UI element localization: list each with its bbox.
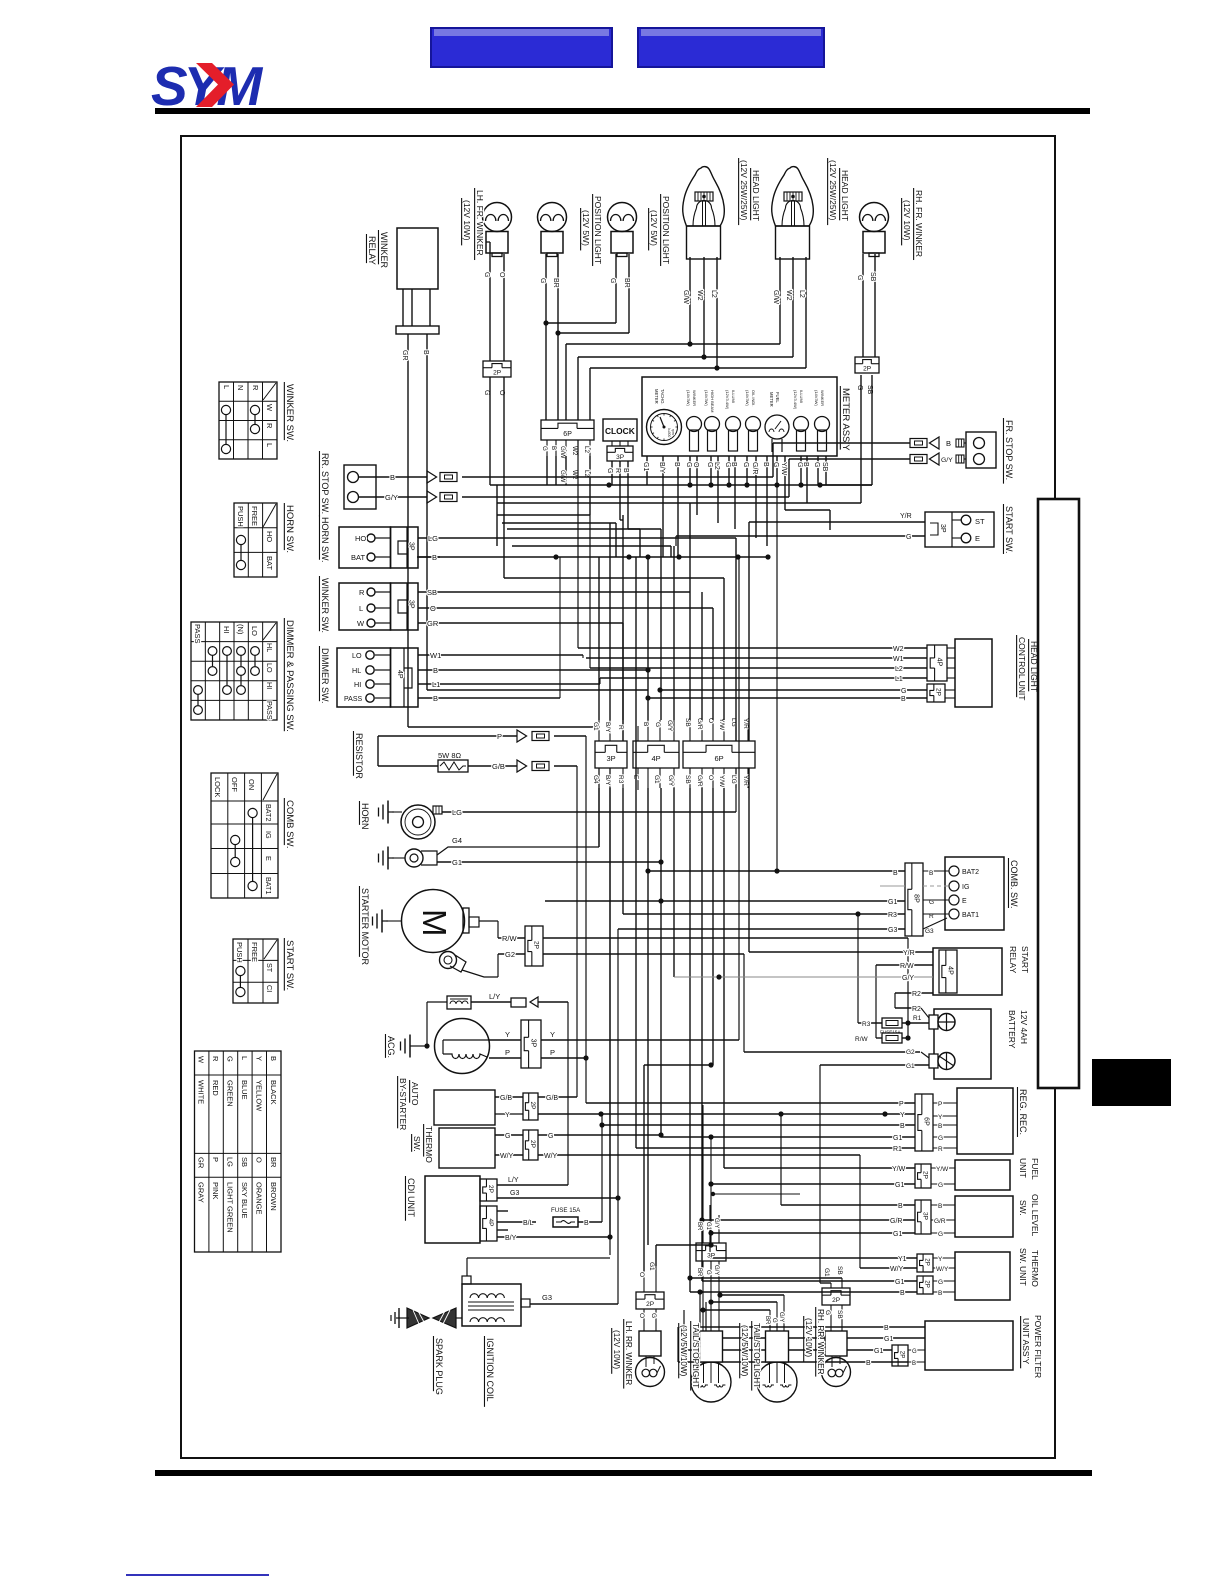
- svg-text:B: B: [938, 1123, 942, 1130]
- wires W2 W1 L2 L1 G B headlight control: [578, 440, 927, 741]
- headlight control unit label: [1017, 635, 1039, 700]
- svg-text:G: G: [912, 1349, 917, 1355]
- wire G/B bystarter: [495, 766, 577, 1102]
- svg-text:G: G: [742, 462, 749, 467]
- fuse R1 battery: [858, 1015, 929, 1038]
- rear stop switch: [344, 465, 376, 509]
- position light 2 lamp: [608, 203, 637, 257]
- ground terminal lug: [379, 847, 438, 870]
- svg-text:Y: Y: [938, 1114, 943, 1121]
- head light 1 lamp: [683, 167, 725, 259]
- svg-text:RH. FR. WINKER: RH. FR. WINKER: [914, 190, 924, 257]
- svg-text:HI: HI: [265, 682, 274, 689]
- svg-text:SB: SB: [836, 1266, 843, 1275]
- svg-text:G/Y: G/Y: [713, 1265, 719, 1275]
- wire LG horn: [442, 768, 736, 817]
- svg-text:G: G: [541, 446, 548, 451]
- wire B horn switch: [418, 553, 440, 562]
- RH front winker lamp: [860, 203, 889, 257]
- svg-text:LG: LG: [428, 534, 438, 543]
- black marker box: [1092, 1059, 1171, 1106]
- svg-text:OIL INDI.: OIL INDI.: [751, 390, 756, 407]
- svg-text:RH. RR. WINKER: RH. RR. WINKER: [816, 1309, 825, 1375]
- meter assy box: [642, 377, 837, 456]
- svg-text:R: R: [617, 725, 624, 730]
- svg-text:G1: G1: [895, 1279, 904, 1286]
- svg-text:POSITION LIGHT: POSITION LIGHT: [661, 196, 671, 264]
- connector 2P CDI: [480, 1179, 497, 1201]
- svg-text:rpm: rpm: [671, 429, 675, 435]
- winker switch table label: [284, 382, 295, 442]
- svg-text:B: B: [673, 462, 680, 467]
- tail stop light 2 label: [740, 1321, 761, 1391]
- svg-text:GRAY: GRAY: [197, 1182, 206, 1203]
- svg-text:G/B: G/B: [546, 1095, 558, 1102]
- svg-text:G3: G3: [925, 928, 934, 935]
- svg-text:12V 4AH: 12V 4AH: [1019, 1010, 1029, 1044]
- svg-text:CI: CI: [265, 985, 274, 992]
- svg-text:PUSH: PUSH: [236, 506, 245, 527]
- svg-text:2P: 2P: [863, 366, 871, 373]
- svg-text:PASS: PASS: [193, 624, 202, 643]
- svg-text:B: B: [901, 696, 906, 703]
- head light 2 lamp: [772, 167, 814, 259]
- svg-text:Y/W: Y/W: [718, 775, 725, 788]
- winker switch table: [219, 382, 277, 459]
- wire L/Y CDI: [497, 1177, 568, 1185]
- svg-text:Y1: Y1: [898, 1256, 907, 1263]
- svg-text:3P: 3P: [408, 600, 415, 609]
- svg-text:SB: SB: [869, 272, 876, 282]
- svg-text:O: O: [707, 775, 714, 780]
- svg-text:O: O: [430, 604, 436, 613]
- wire BR position light 2: [558, 254, 630, 333]
- svg-text:LH. FR. WINKER: LH. FR. WINKER: [475, 190, 485, 256]
- svg-text:2P: 2P: [529, 1140, 536, 1148]
- svg-text:(12V 10W): (12V 10W): [804, 1318, 813, 1357]
- svg-text:W/Y: W/Y: [936, 1266, 949, 1273]
- svg-text:L: L: [359, 604, 363, 613]
- svg-text:(12V 10W): (12V 10W): [462, 200, 472, 241]
- svg-text:G/W: G/W: [772, 290, 779, 304]
- wire GR from winker relay: [401, 334, 597, 727]
- svg-text:B: B: [938, 1203, 942, 1210]
- reg rec label: [1017, 1087, 1028, 1137]
- svg-text:5W 8Ω: 5W 8Ω: [438, 751, 462, 760]
- wire Y/R start switch: [749, 513, 925, 741]
- start relay label: [1008, 946, 1030, 974]
- wire W/Y thermo unit: [860, 1266, 917, 1273]
- svg-text:3P: 3P: [939, 524, 946, 533]
- rear stop switch label: [319, 451, 330, 517]
- svg-text:R: R: [938, 1146, 943, 1153]
- ACG generator: [401, 996, 490, 1074]
- svg-text:METER: METER: [769, 392, 774, 407]
- svg-text:G1: G1: [592, 722, 599, 731]
- svg-text:W: W: [265, 404, 274, 412]
- svg-text:IG: IG: [962, 884, 969, 891]
- svg-text:G2: G2: [906, 1049, 915, 1056]
- wire G3 CDI: [497, 929, 621, 1304]
- svg-text:L2: L2: [713, 462, 720, 470]
- svg-text:B: B: [762, 462, 769, 467]
- wire G1 comb switch: [545, 898, 905, 906]
- svg-text:YELLOW: YELLOW: [255, 1080, 264, 1112]
- svg-text:G3: G3: [888, 927, 897, 934]
- connector 2P thermo switch: [523, 1130, 538, 1160]
- svg-text:IG: IG: [264, 831, 273, 839]
- horn switch label: [319, 515, 330, 563]
- svg-text:POWER FILTER: POWER FILTER: [1033, 1315, 1043, 1378]
- auto bystarter label: [398, 1076, 420, 1130]
- svg-text:W2: W2: [571, 470, 578, 480]
- svg-text:BR: BR: [552, 278, 559, 288]
- footer link line: [126, 1574, 269, 1576]
- thermo switch: [439, 1128, 495, 1168]
- svg-text:TAIL/STOPLIGHT: TAIL/STOPLIGHT: [691, 1323, 700, 1388]
- svg-text:W2: W2: [571, 446, 578, 456]
- horn switch connector: [339, 527, 418, 568]
- svg-text:O: O: [255, 1157, 264, 1163]
- svg-text:PINK: PINK: [211, 1182, 220, 1200]
- svg-text:ON: ON: [247, 779, 256, 790]
- svg-text:G/Y: G/Y: [666, 720, 673, 732]
- wire color legend table: [195, 1051, 282, 1252]
- svg-text:G2: G2: [505, 950, 515, 959]
- svg-text:BR: BR: [696, 1268, 702, 1277]
- vertical harness wires above connectors: [599, 503, 749, 741]
- svg-text:B/Y: B/Y: [658, 462, 665, 474]
- svg-text:G: G: [856, 275, 863, 280]
- svg-text:UNIT ASS’Y: UNIT ASS’Y: [1021, 1318, 1031, 1364]
- battery label: [1007, 1010, 1029, 1049]
- wire B comb switch: [645, 485, 905, 877]
- wire R1 reg rec: [636, 1146, 915, 1153]
- horn label: [359, 801, 370, 830]
- svg-text:METER ASS'Y: METER ASS'Y: [840, 388, 851, 451]
- svg-text:B: B: [946, 439, 951, 448]
- svg-text:2P: 2P: [532, 941, 539, 949]
- svg-text:B: B: [898, 1203, 903, 1210]
- svg-text:FREE: FREE: [250, 942, 259, 962]
- wire P ACG: [489, 736, 589, 1103]
- svg-text:4P: 4P: [487, 1219, 494, 1227]
- svg-text:(12V 5W): (12V 5W): [649, 210, 659, 246]
- svg-text:LO: LO: [250, 626, 259, 636]
- top rule: [155, 108, 1090, 114]
- svg-text:OFF: OFF: [230, 777, 239, 792]
- svg-text:HL: HL: [352, 666, 361, 675]
- svg-text:G: G: [771, 1318, 777, 1323]
- svg-text:G: G: [705, 1270, 711, 1275]
- svg-text:TAIL/STOPLIGHT: TAIL/STOPLIGHT: [752, 1323, 761, 1388]
- LH front winker lamp: [483, 203, 512, 257]
- svg-text:BAT: BAT: [351, 553, 365, 562]
- svg-text:E: E: [975, 534, 980, 543]
- svg-text:G: G: [226, 1056, 235, 1062]
- svg-text:(12V3.4W): (12V3.4W): [793, 390, 798, 410]
- connector 2P bystarter: [523, 1093, 538, 1120]
- comb switch unit: [905, 857, 1004, 936]
- wire LG horn switch: [418, 534, 736, 543]
- svg-text:THERMO: THERMO: [424, 1126, 434, 1163]
- wire B power filter 2P: [678, 1327, 908, 1367]
- svg-text:(12V3.4W): (12V3.4W): [725, 390, 730, 410]
- svg-text:G: G: [938, 1182, 943, 1189]
- svg-text:REG. REC.: REG. REC.: [1018, 1089, 1028, 1135]
- wire Y1 thermo unit: [710, 1205, 917, 1263]
- wires below 6P: [547, 456, 590, 515]
- tacho meter: [647, 389, 682, 445]
- svg-text:W/Y: W/Y: [544, 1153, 558, 1160]
- svg-text:SKY BLUE: SKY BLUE: [240, 1182, 249, 1219]
- svg-text:Y/R: Y/R: [742, 775, 749, 786]
- LH front winker label: [462, 188, 485, 260]
- wire G1 oil level: [708, 1230, 915, 1238]
- svg-text:P: P: [505, 1048, 510, 1057]
- svg-text:Y/R: Y/R: [903, 950, 915, 957]
- nav button 1: [430, 27, 613, 68]
- svg-text:LOCK: LOCK: [213, 777, 222, 797]
- svg-text:G/R: G/R: [751, 462, 758, 474]
- svg-text:BR: BR: [764, 1316, 770, 1325]
- svg-text:R: R: [265, 423, 274, 429]
- wire B rear stop: [359, 443, 774, 483]
- svg-text:BAT2: BAT2: [264, 804, 273, 821]
- svg-text:B: B: [866, 1360, 871, 1367]
- svg-text:BATTERY: BATTERY: [1007, 1010, 1017, 1049]
- svg-text:START SW.: START SW.: [1004, 506, 1014, 554]
- svg-text:TACHO.: TACHO.: [660, 389, 665, 405]
- svg-text:G1: G1: [893, 1135, 902, 1142]
- svg-text:RESISTOR: RESISTOR: [354, 733, 364, 779]
- svg-text:B/Y: B/Y: [604, 775, 611, 786]
- svg-text:HI: HI: [354, 680, 361, 689]
- connector 3P ACG: [521, 1020, 541, 1068]
- svg-text:R3: R3: [617, 775, 624, 784]
- svg-text:UNIT: UNIT: [1018, 1158, 1028, 1178]
- wire G3 ignition coil: [530, 1293, 618, 1304]
- svg-text:W1: W1: [893, 656, 904, 663]
- comb switch unit label: [1008, 858, 1019, 909]
- wire G1 reg rec: [661, 1134, 915, 1142]
- svg-text:B: B: [938, 1290, 942, 1297]
- svg-text:4P: 4P: [652, 754, 661, 763]
- head light 2 label: [828, 158, 850, 225]
- svg-text:HORN SW.: HORN SW.: [320, 517, 330, 563]
- svg-text:BLUE: BLUE: [240, 1080, 249, 1100]
- wire B reg rec: [599, 1122, 915, 1130]
- svg-text:SW.: SW.: [1018, 1200, 1028, 1216]
- headlight control unit: [927, 639, 992, 707]
- svg-text:G: G: [609, 278, 616, 283]
- svg-text:AUTO: AUTO: [410, 1082, 420, 1106]
- wire L1 dimmer: [418, 678, 600, 689]
- svg-text:FR. STOP SW.: FR. STOP SW.: [1004, 420, 1014, 480]
- wire O LH rear winker: [644, 1062, 714, 1271]
- svg-text:G/W: G/W: [559, 470, 566, 483]
- svg-text:Y/R: Y/R: [742, 718, 749, 729]
- svg-text:BROWN: BROWN: [269, 1182, 278, 1211]
- svg-text:Y/W: Y/W: [780, 462, 787, 476]
- svg-text:ORANGE: ORANGE: [255, 1182, 264, 1215]
- svg-text:G: G: [856, 385, 863, 390]
- svg-text:G/W: G/W: [559, 446, 566, 459]
- winker relay: [396, 228, 439, 334]
- white overlay box: [1038, 499, 1079, 1088]
- svg-text:WINKER: WINKER: [692, 390, 697, 406]
- svg-text:L2: L2: [710, 290, 717, 298]
- CDI unit label: [405, 1176, 416, 1221]
- svg-text:Y: Y: [255, 1056, 264, 1061]
- svg-text:N: N: [236, 385, 245, 390]
- svg-text:G3: G3: [542, 1293, 552, 1302]
- wire R2 start relay: [895, 991, 933, 1018]
- svg-text:START SW.: START SW.: [284, 940, 295, 990]
- svg-text:4P: 4P: [935, 658, 942, 667]
- svg-text:G1: G1: [648, 1262, 655, 1271]
- wire Y/W fuel unit: [724, 1166, 915, 1173]
- bus wire y557: [417, 554, 771, 559]
- svg-text:G1: G1: [874, 1348, 883, 1355]
- CDI pin stubs: [497, 1211, 508, 1230]
- starter motor label: [359, 886, 370, 966]
- svg-text:L1: L1: [895, 676, 903, 683]
- wire G LH winker: [483, 242, 490, 485]
- svg-text:3P: 3P: [607, 754, 616, 763]
- wires G/W W2 L2 head light 2: [772, 257, 806, 368]
- svg-text:R/W: R/W: [900, 963, 914, 970]
- power filter unit: [892, 1321, 1013, 1370]
- svg-text:Y: Y: [550, 1030, 555, 1039]
- svg-text:2P: 2P: [921, 1171, 928, 1179]
- svg-text:G: G: [483, 272, 490, 277]
- svg-text:G1: G1: [653, 775, 660, 784]
- svg-text:STARTER MOTOR: STARTER MOTOR: [360, 888, 370, 966]
- svg-text:B/Y: B/Y: [505, 1235, 517, 1242]
- svg-text:G/R: G/R: [696, 775, 703, 787]
- wire B front stop: [773, 437, 966, 449]
- svg-text:G/Y: G/Y: [667, 775, 674, 787]
- spark plug: [391, 1308, 462, 1328]
- svg-text:(12V5W/10W): (12V5W/10W): [740, 1325, 749, 1377]
- connector 4P harness: [632, 720, 679, 790]
- svg-text:LIGHT GREEN: LIGHT GREEN: [226, 1182, 235, 1233]
- svg-text:HEAD LIGHT: HEAD LIGHT: [840, 170, 850, 221]
- svg-text:HORN SW.: HORN SW.: [284, 505, 295, 553]
- svg-text:P: P: [938, 1101, 942, 1108]
- svg-text:G: G: [650, 1313, 657, 1318]
- svg-text:(14V3W): (14V3W): [814, 390, 819, 406]
- svg-text:P: P: [899, 1101, 904, 1108]
- svg-text:(12V 25W/25W): (12V 25W/25W): [739, 160, 749, 221]
- svg-text:(14V3W): (14V3W): [745, 390, 750, 406]
- svg-text:R: R: [211, 1056, 220, 1062]
- svg-text:B: B: [550, 446, 557, 450]
- RH front winker label: [902, 188, 924, 260]
- wire G1 ground lug: [437, 858, 664, 867]
- svg-text:G: G: [906, 534, 911, 541]
- svg-text:P: P: [497, 732, 502, 741]
- svg-text:G: G: [796, 462, 803, 467]
- winker switch connector: [339, 583, 418, 630]
- svg-text:W2: W2: [785, 290, 792, 301]
- svg-text:RED: RED: [211, 1080, 220, 1096]
- svg-text:ST: ST: [975, 517, 985, 526]
- svg-text:(12V 10W): (12V 10W): [612, 1330, 621, 1369]
- dimmer switch connector: [337, 648, 418, 707]
- thermo switch label: [412, 1124, 434, 1163]
- svg-text:G/Y: G/Y: [941, 457, 953, 464]
- wire B oil level: [778, 1111, 915, 1210]
- svg-text:FUSE 15A: FUSE 15A: [551, 1207, 581, 1214]
- resistor label: [353, 731, 364, 779]
- wire G2 battery: [744, 1049, 929, 1058]
- wire B power filter: [697, 1289, 925, 1332]
- wire R/W starter: [498, 934, 908, 1023]
- wire IG comb switch: [880, 885, 905, 887]
- nav button 2: [637, 27, 825, 68]
- svg-text:L: L: [265, 443, 274, 447]
- wire Y ACG: [489, 557, 739, 1040]
- power filter label: [1021, 1315, 1043, 1378]
- svg-text:3P: 3P: [529, 1039, 536, 1048]
- svg-text:START: START: [1020, 946, 1030, 973]
- svg-text:W/Y: W/Y: [890, 1266, 904, 1273]
- head light bus wires: [543, 320, 806, 420]
- svg-text:2P: 2P: [923, 1280, 930, 1288]
- wire G RH winker: [689, 254, 863, 503]
- tail stop light 1 lamp: [691, 1105, 731, 1402]
- svg-text:R: R: [251, 385, 260, 391]
- comb switch table label: [284, 798, 295, 849]
- position light 1 label: [581, 194, 603, 266]
- svg-text:LH. RR. WINKER: LH. RR. WINKER: [624, 1321, 633, 1385]
- svg-text:G/Y: G/Y: [385, 493, 398, 502]
- svg-text:G1: G1: [906, 1063, 915, 1070]
- svg-text:R1: R1: [893, 1146, 902, 1153]
- svg-text:G: G: [724, 462, 731, 467]
- svg-text:G4: G4: [592, 775, 599, 784]
- tail light 2 feed wires: [700, 1292, 784, 1312]
- svg-text:SB: SB: [240, 1157, 249, 1167]
- wire B thermo unit: [687, 1275, 917, 1297]
- svg-text:R3: R3: [862, 1021, 871, 1028]
- wire G position light 1: [539, 254, 546, 420]
- position light 2 label: [649, 194, 671, 266]
- tail stop light 2 lamp: [757, 1295, 797, 1402]
- svg-text:2P: 2P: [898, 1351, 905, 1359]
- spark plug label: [433, 1336, 444, 1395]
- svg-text:B: B: [730, 462, 737, 467]
- wire G1 thermo unit: [702, 1220, 917, 1286]
- svg-text:LG: LG: [730, 775, 737, 784]
- svg-text:G: G: [938, 1279, 943, 1286]
- svg-text:PUSH: PUSH: [235, 942, 244, 963]
- svg-text:SB: SB: [684, 775, 691, 784]
- svg-text:WINKER: WINKER: [379, 232, 389, 269]
- svg-text:B: B: [884, 1325, 889, 1332]
- svg-text:B/Y: B/Y: [604, 722, 611, 733]
- svg-text:G1: G1: [884, 1336, 893, 1343]
- wire G start switch: [676, 534, 925, 546]
- position light 1 lamp: [538, 203, 567, 257]
- svg-text:O: O: [498, 272, 505, 278]
- svg-text:THERMO: THERMO: [1030, 1250, 1040, 1287]
- svg-text:(12V 10W): (12V 10W): [902, 200, 912, 241]
- wire G1 battery: [820, 1063, 929, 1283]
- start switch table: [233, 939, 278, 1003]
